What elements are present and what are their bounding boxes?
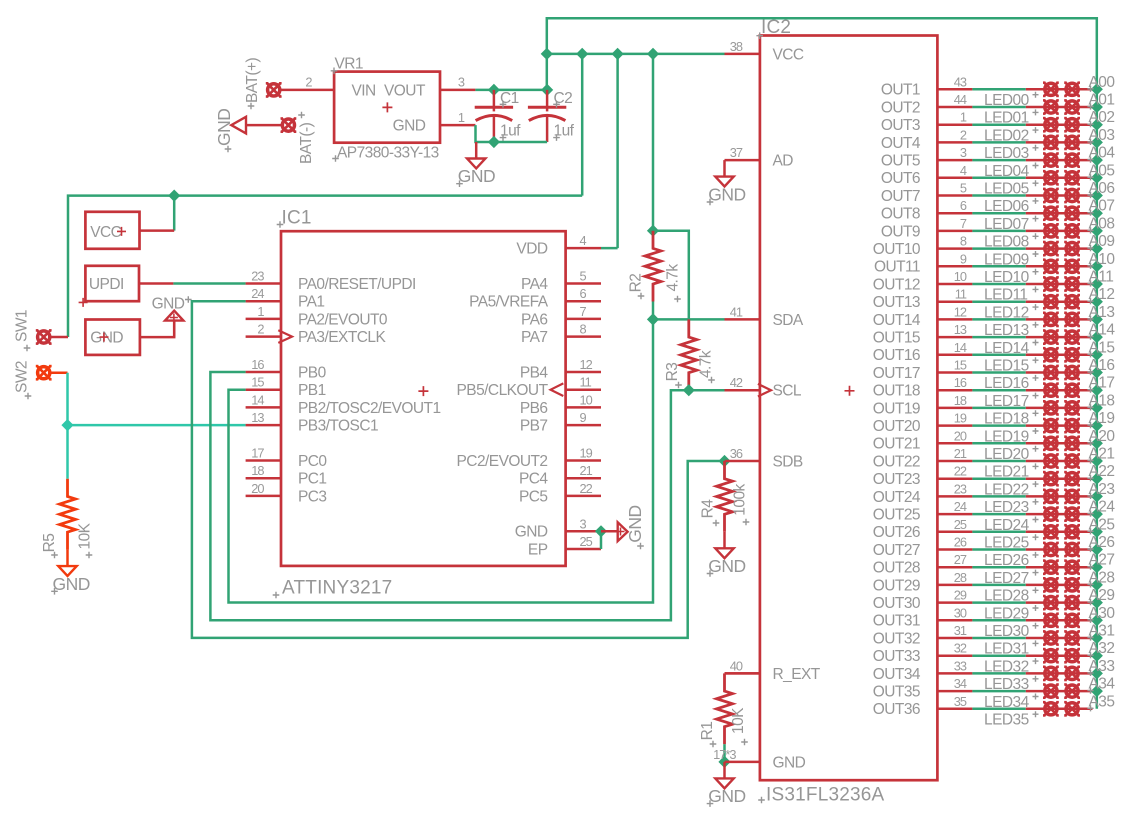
- IC2 pin 22 OUT23 row: [937, 477, 972, 480]
- IC2 pin 42 SCL: [725, 389, 760, 392]
- svg-text:PA1: PA1: [298, 294, 325, 311]
- node junction A09: [1091, 243, 1103, 255]
- svg-text:GND: GND: [773, 754, 806, 771]
- LED LED29 pads: [1043, 595, 1059, 611]
- svg-text:PA2/EVOUT0: PA2/EVOUT0: [298, 311, 388, 328]
- IC2 pin 24 OUT25 row: [937, 513, 972, 516]
- LED LED15 pads: [1043, 347, 1059, 363]
- svg-text:UPDI: UPDI: [89, 276, 124, 293]
- IC2 pin 38 VCC: [725, 53, 760, 56]
- IC2 pin 8 OUT10 row: [937, 247, 972, 250]
- svg-text:28: 28: [954, 570, 967, 585]
- LED LED05 pads: [1043, 170, 1059, 186]
- svg-text:OUT5: OUT5: [881, 153, 920, 170]
- node junction A06: [1091, 189, 1103, 201]
- svg-text:17*3: 17*3: [713, 747, 736, 762]
- LED LED03 pads: [1043, 135, 1059, 151]
- svg-text:GND: GND: [515, 524, 548, 541]
- LED LED02 pads: [1043, 117, 1059, 133]
- svg-text:PB2/TOSC2/EVOUT1: PB2/TOSC2/EVOUT1: [298, 400, 441, 417]
- IC1 pin 25 EP: [566, 548, 601, 551]
- node junction VCC/C2: [541, 48, 553, 60]
- switch SW2 pad (highlighted): [36, 365, 52, 381]
- svg-text:OUT11: OUT11: [874, 259, 920, 276]
- node junction A10: [1091, 260, 1103, 272]
- wire VCC top bus: [547, 18, 1097, 709]
- IC1 pin 10 PB6: [566, 406, 601, 409]
- svg-text:3: 3: [580, 516, 587, 531]
- wire SW1 stub: [51, 336, 69, 339]
- node junction C1 bottom: [488, 136, 500, 148]
- resistor R2 4.7k: [645, 231, 661, 302]
- svg-text:19: 19: [580, 446, 593, 461]
- svg-text:PB1: PB1: [298, 382, 326, 399]
- svg-text:38: 38: [730, 39, 743, 54]
- IC1 pin 20 PC3: [246, 495, 281, 498]
- wire SDA net: [653, 318, 725, 321]
- svg-text:2: 2: [305, 75, 312, 90]
- svg-text:11: 11: [955, 287, 967, 302]
- LED LED22 pads: [1043, 471, 1059, 487]
- node junction VOUT/C1: [488, 84, 500, 96]
- svg-text:AP7380-33Y-13: AP7380-33Y-13: [337, 144, 439, 161]
- svg-text:8: 8: [960, 234, 967, 249]
- svg-text:22: 22: [580, 481, 593, 496]
- svg-text:36: 36: [730, 446, 743, 461]
- node junction A28: [1091, 579, 1103, 591]
- IC1 pin 9 PB7: [566, 424, 601, 427]
- IC2 pin 44 OUT2 row: [937, 106, 972, 109]
- svg-text:GND: GND: [152, 296, 185, 313]
- node junction A17: [1091, 384, 1103, 396]
- svg-text:26: 26: [954, 535, 967, 550]
- svg-text:PB0: PB0: [298, 364, 327, 381]
- svg-text:VCC: VCC: [90, 224, 121, 241]
- svg-text:OUT12: OUT12: [873, 276, 920, 293]
- LED LED18 pads: [1043, 400, 1059, 416]
- node junction A00: [1091, 83, 1103, 95]
- svg-text:VR1: VR1: [335, 55, 364, 72]
- wire UPDI box stub: [139, 282, 173, 285]
- svg-text:15: 15: [251, 375, 264, 390]
- svg-text:41: 41: [730, 304, 743, 319]
- IC2 pin 14 OUT16 row: [937, 354, 972, 357]
- node junction IC1 GND: [595, 525, 607, 537]
- LED LED25 pads: [1043, 524, 1059, 540]
- IC2 pin 34 OUT35 row: [937, 690, 972, 693]
- svg-text:25: 25: [954, 517, 967, 532]
- IC1 ATTINY3217 box: [281, 231, 566, 566]
- IC1 pin 1 PA2/EVOUT0: [246, 318, 281, 321]
- svg-text:GND: GND: [708, 786, 745, 806]
- IC2 pin 43 OUT1 row: [937, 88, 972, 91]
- LED LED26 pads: [1043, 542, 1059, 558]
- svg-text:PC4: PC4: [519, 471, 548, 488]
- svg-text:LED35: LED35: [984, 712, 1029, 729]
- IC2 pin 5 OUT7 row: [937, 194, 972, 197]
- ground below IC2 GND pin: [715, 762, 733, 788]
- node junction VCC/R2/R3: [647, 225, 659, 237]
- svg-text:R4: R4: [700, 499, 717, 519]
- svg-text:10: 10: [580, 392, 593, 407]
- IC2 pin 10 OUT12 row: [937, 283, 972, 286]
- LED LED12 pads: [1043, 294, 1059, 310]
- svg-text:OUT14: OUT14: [873, 312, 921, 329]
- svg-text:OUT30: OUT30: [873, 595, 921, 612]
- pin 1 GND stub: [440, 124, 475, 127]
- LED LED20 pads: [1043, 435, 1059, 451]
- node junction A24: [1091, 508, 1103, 520]
- connector VCC box: [85, 212, 139, 249]
- svg-text:2: 2: [257, 322, 264, 337]
- IC2 pin 15 OUT17 row: [937, 371, 972, 374]
- node junction A03: [1091, 136, 1103, 148]
- svg-text:ATTINY3217: ATTINY3217: [282, 578, 392, 599]
- IC2 pin 21 OUT22 row: [937, 460, 972, 463]
- IC2 pin 42 clock mark: [758, 384, 771, 397]
- wire C1/C2 ground net: [476, 125, 548, 142]
- wire PB0/SCL net: [210, 372, 688, 620]
- LED LED32 pads: [1043, 648, 1059, 664]
- svg-text:6: 6: [960, 198, 967, 213]
- svg-text:PB4: PB4: [520, 364, 549, 381]
- svg-text:OUT6: OUT6: [881, 170, 920, 187]
- ground left of BAT(-): [231, 117, 246, 134]
- svg-text:42: 42: [730, 375, 743, 390]
- svg-text:22: 22: [954, 464, 967, 479]
- wire VCC drop to VDD: [616, 54, 619, 248]
- ground below R5 (highlighted): [58, 550, 76, 576]
- IC2 pin 33 OUT34 row: [937, 672, 972, 675]
- IC2 pin 4 OUT6 row: [937, 177, 972, 180]
- svg-text:VCC: VCC: [773, 46, 804, 63]
- svg-text:VOUT: VOUT: [384, 82, 426, 99]
- ground right of IC1: [601, 522, 628, 541]
- svg-text:16: 16: [251, 357, 264, 372]
- svg-text:4: 4: [960, 163, 967, 178]
- svg-text:OUT13: OUT13: [873, 294, 920, 311]
- LED LED27 pads: [1043, 559, 1059, 575]
- capacitor C1: [475, 90, 513, 142]
- svg-text:34: 34: [954, 676, 967, 691]
- IC1 pin 7 PA6: [566, 318, 601, 321]
- svg-text:23: 23: [251, 269, 264, 284]
- LED LED09 pads: [1043, 241, 1059, 257]
- node junction VOUT/C2: [541, 84, 553, 96]
- node junction A16: [1091, 366, 1103, 378]
- LED LED01 pads: [1043, 99, 1059, 115]
- node junction SCL: [683, 384, 695, 396]
- wire VCC net SW1 to rail: [68, 196, 582, 337]
- wire IC1 GND/EP join: [600, 531, 603, 549]
- node junction A12: [1091, 296, 1103, 308]
- svg-text:7: 7: [960, 216, 967, 231]
- IC1 pin 22 PC5: [566, 495, 601, 498]
- svg-text:17: 17: [251, 446, 264, 461]
- IC2 pin 30 OUT31 row: [937, 619, 972, 622]
- LED LED34 pads: [1043, 683, 1059, 699]
- svg-text:GND: GND: [708, 185, 745, 205]
- capacitor C2: [528, 90, 566, 142]
- svg-text:OUT1: OUT1: [881, 82, 920, 99]
- svg-text:OUT17: OUT17: [873, 365, 920, 382]
- svg-text:3: 3: [458, 75, 465, 90]
- svg-text:IS31FL3236A: IS31FL3236A: [766, 785, 885, 806]
- IC2 pin 41 SDA: [725, 318, 760, 321]
- svg-text:OUT35: OUT35: [873, 684, 920, 701]
- node junction A07: [1091, 207, 1103, 219]
- svg-text:OUT21: OUT21: [873, 436, 920, 453]
- IC1 pin 19 PC2/EVOUT2: [566, 459, 601, 462]
- svg-text:OUT16: OUT16: [873, 347, 920, 364]
- svg-text:OUT34: OUT34: [873, 666, 921, 683]
- ground below C1: [467, 142, 485, 168]
- node junction A33: [1091, 667, 1103, 679]
- wire UPDI net: [173, 282, 245, 285]
- wire VCC box riser: [173, 196, 176, 231]
- IC2 pin 29 OUT30 row: [937, 601, 972, 604]
- svg-text:OUT29: OUT29: [873, 577, 920, 594]
- svg-text:PC5: PC5: [519, 488, 548, 505]
- node junction VCC rail: [576, 48, 588, 60]
- svg-text:GND: GND: [214, 109, 234, 146]
- LED LED31 pads: [1043, 630, 1059, 646]
- svg-text:OUT9: OUT9: [881, 223, 920, 240]
- svg-text:OUT24: OUT24: [873, 489, 921, 506]
- svg-text:1: 1: [960, 110, 967, 125]
- svg-text:27: 27: [954, 552, 967, 567]
- svg-text:4.7k: 4.7k: [698, 350, 715, 378]
- IC2 IS31FL3236A box: [760, 36, 938, 781]
- IC2 pin 25 OUT26 row: [937, 531, 972, 534]
- svg-text:R_EXT: R_EXT: [773, 666, 821, 683]
- IC1 pin 24 PA1: [246, 300, 281, 303]
- pin 3 VOUT stub: [440, 89, 475, 92]
- IC2 pin 23 OUT24 row: [937, 495, 972, 498]
- svg-text:R5: R5: [41, 534, 58, 553]
- LED LED30 pads: [1043, 612, 1059, 628]
- svg-text:OUT23: OUT23: [873, 471, 920, 488]
- svg-text:PA3/EXTCLK: PA3/EXTCLK: [298, 329, 386, 346]
- IC1 pin 21 PC4: [566, 477, 601, 480]
- LED LED14 pads: [1043, 329, 1059, 345]
- node junction A26: [1091, 543, 1103, 555]
- LED LED17 pads: [1043, 382, 1059, 398]
- svg-text:BAT(-): BAT(-): [298, 122, 315, 164]
- wire VOUT net: [475, 89, 547, 92]
- node junction A21: [1091, 455, 1103, 467]
- connector GND box: [85, 320, 139, 355]
- connector UPDI box: [85, 266, 139, 301]
- svg-text:SDA: SDA: [773, 312, 804, 329]
- svg-text:OUT25: OUT25: [873, 507, 920, 524]
- svg-text:14: 14: [251, 392, 264, 407]
- svg-text:25: 25: [580, 534, 593, 549]
- pin 2 VIN wire: [281, 89, 334, 92]
- svg-text:OUT27: OUT27: [873, 542, 920, 559]
- wire R_EXT to R1: [725, 672, 761, 675]
- svg-text:PC0: PC0: [298, 453, 327, 470]
- svg-text:30: 30: [954, 605, 967, 620]
- wire PB1/SDA net: [229, 319, 654, 602]
- LED LED16 pads: [1043, 365, 1059, 381]
- svg-text:19: 19: [954, 411, 967, 426]
- node junction A02: [1091, 119, 1103, 131]
- IC1 pin 5 PA4: [566, 282, 601, 285]
- svg-text:GND: GND: [393, 118, 426, 135]
- svg-text:PB6: PB6: [520, 400, 548, 417]
- IC1 pin 12 PB4: [566, 371, 601, 374]
- svg-text:21: 21: [580, 463, 593, 478]
- IC1 pin 6 PA5/VREFA: [566, 300, 601, 303]
- svg-text:12: 12: [954, 304, 967, 319]
- svg-text:BAT(+): BAT(+): [244, 58, 261, 103]
- resistor R4 100k: [717, 461, 733, 532]
- svg-text:33: 33: [954, 658, 967, 673]
- LED LED04 pads: [1043, 152, 1059, 168]
- svg-text:OUT2: OUT2: [881, 99, 920, 116]
- LED LED21 pads: [1043, 453, 1059, 469]
- LED LED33 pads: [1043, 666, 1059, 682]
- svg-text:SDB: SDB: [773, 453, 803, 470]
- IC1 pin 17 PC0: [246, 459, 281, 462]
- IC1 pin 11 clock mark: [551, 383, 564, 396]
- LED LED23 pads: [1043, 489, 1059, 505]
- svg-text:OUT26: OUT26: [873, 524, 920, 541]
- svg-text:11: 11: [580, 375, 592, 390]
- node junction A04: [1091, 154, 1103, 166]
- svg-text:IC2: IC2: [761, 17, 791, 38]
- IC2 pin 16 OUT18 row: [937, 389, 972, 392]
- wire VCC to R3: [653, 231, 689, 320]
- svg-text:29: 29: [954, 588, 967, 603]
- IC1 pin 13 PB3/TOSC1: [246, 424, 281, 427]
- svg-text:OUT32: OUT32: [873, 630, 920, 647]
- svg-text:IC1: IC1: [282, 208, 312, 229]
- svg-text:10K: 10K: [730, 707, 747, 734]
- svg-text:VIN: VIN: [352, 82, 376, 99]
- IC1 pin 4 VDD: [566, 247, 601, 250]
- ground below R4: [715, 532, 733, 558]
- svg-text:2: 2: [960, 127, 967, 142]
- svg-text:PC2/EVOUT2: PC2/EVOUT2: [457, 453, 548, 470]
- svg-text:37: 37: [730, 145, 743, 160]
- svg-text:OUT19: OUT19: [873, 400, 920, 417]
- wire SW2 stub (highlighted): [51, 371, 68, 374]
- wire SW2/PB3 net horizontal (highlighted): [68, 424, 246, 427]
- svg-text:SW2: SW2: [14, 361, 31, 393]
- svg-text:R3: R3: [664, 363, 681, 382]
- node junction A08: [1091, 225, 1103, 237]
- node junction A05: [1091, 172, 1103, 184]
- svg-text:20: 20: [954, 428, 967, 443]
- IC2 pin 28 OUT29 row: [937, 584, 972, 587]
- IC1 pin 15 PB1: [246, 388, 281, 391]
- svg-text:VDD: VDD: [516, 241, 547, 258]
- svg-text:44: 44: [954, 92, 967, 107]
- svg-text:18: 18: [251, 463, 264, 478]
- LED LED19 pads: [1043, 418, 1059, 434]
- svg-text:PC3: PC3: [298, 488, 327, 505]
- IC2 pin 3 OUT5 row: [937, 159, 972, 162]
- svg-text:PC1: PC1: [298, 471, 327, 488]
- node junction VCC box tap: [168, 190, 180, 202]
- wire BAT(-) to GND: [246, 124, 281, 127]
- IC2 pin 2 OUT4 row: [937, 141, 972, 144]
- IC2 pin 13 OUT15 row: [937, 336, 972, 339]
- svg-text:18: 18: [954, 393, 967, 408]
- pad BAT(+): [266, 82, 282, 98]
- wire SCL net: [671, 389, 725, 392]
- LED LED10 pads: [1043, 258, 1059, 274]
- IC2 pin 11 OUT13 row: [937, 300, 972, 303]
- svg-text:SCL: SCL: [773, 383, 802, 400]
- node junction VCC/R2: [647, 48, 659, 60]
- svg-text:SW1: SW1: [14, 310, 31, 342]
- pad BAT(-): [281, 117, 297, 133]
- svg-text:15: 15: [954, 358, 967, 373]
- IC2 pin 12 OUT14 row: [937, 318, 972, 321]
- IC2 pin 26 OUT27 row: [937, 548, 972, 551]
- IC1 pin 2 clock mark: [278, 330, 292, 343]
- LED LED13 pads: [1043, 312, 1059, 328]
- IC2 pin 7 OUT9 row: [937, 230, 972, 233]
- node junction VCC/VDD: [612, 48, 624, 60]
- IC2 pin 36 SDB: [725, 460, 760, 463]
- node junction A18: [1091, 402, 1103, 414]
- node junction A25: [1091, 526, 1103, 538]
- svg-text:1: 1: [257, 304, 264, 319]
- svg-text:R2: R2: [628, 274, 645, 293]
- IC2 pin 1 OUT3 row: [937, 123, 972, 126]
- wire PA1/SDB net: [192, 301, 725, 638]
- resistor R1 10K: [717, 673, 733, 744]
- IC2 pin 32 OUT33 row: [937, 654, 972, 657]
- svg-text:OUT22: OUT22: [873, 453, 920, 470]
- IC1 pin 18 PC1: [246, 477, 281, 480]
- svg-text:12: 12: [580, 357, 593, 372]
- IC1 pin 3 GND: [566, 530, 601, 533]
- resistor R5 (highlighted): [60, 479, 76, 550]
- svg-text:10: 10: [954, 269, 967, 284]
- node junction A11: [1091, 278, 1103, 290]
- svg-text:5: 5: [960, 181, 967, 196]
- wire VCC drop to R2/R3: [652, 54, 655, 231]
- node junction A14: [1091, 331, 1103, 343]
- svg-text:6: 6: [580, 286, 587, 301]
- wire GND box to supply arrow: [140, 320, 174, 337]
- svg-text:PB7: PB7: [520, 418, 548, 435]
- svg-text:14: 14: [954, 340, 967, 355]
- wire VCC box stub: [140, 229, 175, 232]
- node junction A23: [1091, 490, 1103, 502]
- svg-text:31: 31: [954, 623, 967, 638]
- svg-text:4.7k: 4.7k: [665, 264, 682, 292]
- svg-text:20: 20: [251, 481, 264, 496]
- svg-text:EP: EP: [528, 541, 548, 558]
- IC1 pin 16 PB0: [246, 371, 281, 374]
- svg-text:PA4: PA4: [521, 276, 548, 293]
- svg-text:GND: GND: [53, 574, 90, 594]
- wire VCC rail to IC2 pin38: [547, 53, 725, 56]
- svg-text:R1: R1: [699, 722, 716, 741]
- node junction A20: [1091, 437, 1103, 449]
- LED LED08 pads: [1043, 223, 1059, 239]
- svg-text:GND: GND: [458, 166, 495, 186]
- node junction A22: [1091, 473, 1103, 485]
- IC1 pin 14 PB2/TOSC2/EVOUT1: [246, 406, 281, 409]
- node junction SW2/R5: [61, 419, 73, 431]
